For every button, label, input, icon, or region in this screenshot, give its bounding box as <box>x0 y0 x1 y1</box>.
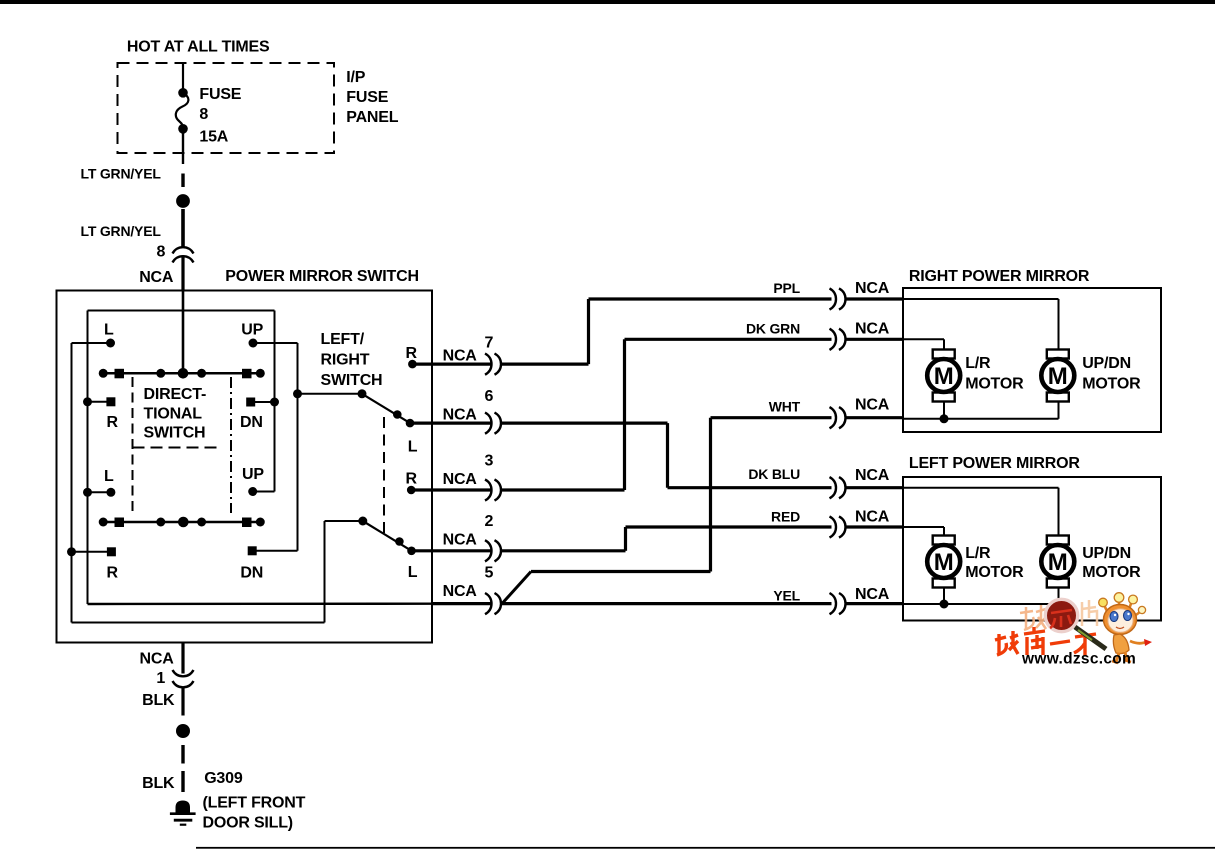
wire WHT common bus right mirror <box>903 400 1059 424</box>
svg-text:UP/DN: UP/DN <box>1082 545 1131 562</box>
svg-text:NCA: NCA <box>443 532 478 549</box>
svg-text:SWITCH: SWITCH <box>144 425 206 442</box>
bottom rule <box>196 847 1215 849</box>
svg-text:HOT AT ALL TIMES: HOT AT ALL TIMES <box>127 39 270 56</box>
wm text weikuyixia <box>995 627 1096 656</box>
right power mirror box <box>903 288 1161 432</box>
directional switch dash-dot box <box>133 377 232 513</box>
wire DK GRN routing (from pin 3) <box>501 339 832 490</box>
contact L lower-left <box>83 488 115 497</box>
svg-text:NCA: NCA <box>855 467 890 484</box>
svg-text:DOOR SILL): DOOR SILL) <box>203 815 293 832</box>
svg-text:RED: RED <box>771 509 800 525</box>
wire YEL common bus left mirror <box>903 586 1059 609</box>
contact R terminal pin 7 <box>408 360 491 369</box>
svg-text:NCA: NCA <box>139 269 174 286</box>
wire from panel top to fuse <box>182 63 184 93</box>
upper contact bus <box>99 368 265 379</box>
contact L upper-left <box>72 339 116 348</box>
label DIRECTIONAL SWITCH <box>144 386 207 442</box>
label L/R MOTOR <box>965 355 1024 393</box>
svg-text:NCA: NCA <box>443 583 478 600</box>
wire fuse to splice (LT GRN/YEL) <box>182 133 184 187</box>
wire BLK dashes to ground <box>181 745 184 792</box>
wire DK GRN to l/r motor <box>903 339 944 351</box>
wire RED to l/r motor <box>903 527 944 537</box>
svg-text:RIGHT POWER MIRROR: RIGHT POWER MIRROR <box>909 268 1090 285</box>
wire PPL routing <box>501 299 832 364</box>
wire DK BLU to up/dn motor <box>903 488 1059 537</box>
motor M4 UP/DN (left mirror) <box>1041 536 1074 588</box>
svg-text:LT GRN/YEL: LT GRN/YEL <box>81 166 162 182</box>
splice S1 <box>176 194 190 208</box>
svg-text:2: 2 <box>485 513 494 530</box>
label UP/DN MOTOR <box>1082 355 1141 393</box>
wire WHT routing (branch from pin 5) <box>502 418 832 604</box>
wm mascot <box>1099 593 1152 663</box>
svg-text:M: M <box>934 363 954 390</box>
svg-text:LT GRN/YEL: LT GRN/YEL <box>81 223 162 239</box>
wire BLK to splice <box>181 688 184 716</box>
svg-text:L: L <box>104 468 114 485</box>
connector NCA 1 <box>173 670 194 687</box>
svg-text:NCA: NCA <box>855 397 890 414</box>
svg-text:6: 6 <box>485 388 494 405</box>
svg-text:SWITCH: SWITCH <box>321 372 383 389</box>
motor M3 L/R (left mirror) <box>927 536 960 588</box>
left/right switch arm 2 <box>358 517 416 556</box>
svg-text:UP/DN: UP/DN <box>1082 355 1131 372</box>
label LEFT/ RIGHT SWITCH <box>321 331 383 389</box>
svg-text:M: M <box>1048 363 1068 390</box>
svg-text:DN: DN <box>240 565 263 582</box>
svg-text:15A: 15A <box>199 129 228 146</box>
mechanical link dashed <box>383 417 385 535</box>
svg-text:MOTOR: MOTOR <box>1082 376 1141 393</box>
wire arm1 L to pin 6 <box>410 422 491 425</box>
label FUSE 8 15A <box>199 86 241 146</box>
wire UP-upper/DN-lower to arm 1 pivot <box>293 343 362 551</box>
svg-text:POWER MIRROR SWITCH: POWER MIRROR SWITCH <box>225 268 419 285</box>
svg-text:5: 5 <box>485 565 494 582</box>
left/right switch arm 1 <box>358 389 415 427</box>
label L/R MOTOR <box>965 545 1024 581</box>
wire RED routing (from pin 2) <box>501 527 832 551</box>
svg-text:L: L <box>408 564 418 581</box>
power mirror switch box <box>57 291 433 643</box>
svg-text:8: 8 <box>157 244 166 261</box>
labels NCA pins left column <box>443 348 478 601</box>
svg-text:LEFT POWER MIRROR: LEFT POWER MIRROR <box>909 455 1080 472</box>
connector NCA (RED) <box>830 516 904 537</box>
svg-text:WHT: WHT <box>769 399 801 415</box>
svg-text:FUSE: FUSE <box>199 86 241 103</box>
svg-text:www.dzsc.com: www.dzsc.com <box>1021 651 1136 668</box>
fuse F8 15A <box>176 88 189 134</box>
connector NCA (WHT) <box>830 407 904 428</box>
svg-text:NCA: NCA <box>443 407 478 424</box>
wm char pian <box>1082 600 1097 626</box>
svg-text:3: 3 <box>485 453 494 470</box>
common return wire (top jumper + side drops to NCA5) <box>88 311 275 605</box>
svg-text:PANEL: PANEL <box>346 109 398 126</box>
label UP/DN MOTOR <box>1082 545 1141 581</box>
connector NCA 3 <box>485 479 501 500</box>
svg-text:1: 1 <box>156 670 165 687</box>
wire PPL to up/dn motor <box>903 299 1059 351</box>
svg-text:G309: G309 <box>204 770 243 787</box>
svg-text:R: R <box>406 345 418 362</box>
lower contact bus <box>99 517 265 528</box>
svg-text:M: M <box>934 549 954 576</box>
contact R terminal pin 3 <box>407 486 491 495</box>
wm char zhao <box>1020 605 1046 630</box>
wire DK BLU routing (from pin 6) <box>501 423 832 488</box>
wire YEL routing (from pin 5) <box>501 602 832 605</box>
svg-text:YEL: YEL <box>773 588 800 604</box>
svg-text:UP: UP <box>242 466 264 483</box>
connector NCA (PPL) <box>830 288 904 309</box>
svg-text:DIRECT-: DIRECT- <box>144 386 207 403</box>
contact UP lower-right <box>248 487 274 496</box>
wire ground feed below switch box <box>181 643 184 674</box>
motor M2 UP/DN (right mirror) <box>1041 350 1074 402</box>
svg-text:R: R <box>107 565 119 582</box>
wm magnifier ring <box>1045 599 1077 631</box>
connector NCA 2 <box>485 540 501 561</box>
svg-text:DN: DN <box>240 414 263 431</box>
labels pin numbers 7 6 3 2 5 <box>485 335 494 582</box>
svg-text:8: 8 <box>199 106 208 123</box>
wire connector into switch box <box>181 257 184 290</box>
connector NCA 8 <box>173 247 194 262</box>
contact UP upper-right <box>249 339 298 348</box>
contact DN upper-right <box>246 398 279 407</box>
svg-text:L/R: L/R <box>965 545 991 562</box>
svg-text:L: L <box>408 439 418 456</box>
connector NCA 6 <box>485 413 501 434</box>
wire arm2 L to pin 2 <box>412 549 492 552</box>
svg-text:NCA: NCA <box>443 348 478 365</box>
svg-text:MOTOR: MOTOR <box>965 376 1024 393</box>
svg-text:TIONAL: TIONAL <box>144 406 203 423</box>
svg-text:NCA: NCA <box>855 509 890 526</box>
svg-text:L: L <box>104 322 114 339</box>
svg-text:NCA: NCA <box>855 280 890 297</box>
top black border bar <box>0 0 1215 4</box>
svg-text:L/R: L/R <box>965 355 991 372</box>
wire L-upper/R-lower to left-right switch arm 2 pivot <box>72 343 363 623</box>
label (LEFT FRONT DOOR SILL) <box>203 795 306 832</box>
connector NCA 7 <box>485 354 501 375</box>
ground G309 symbol <box>170 801 196 825</box>
svg-text:NCA: NCA <box>855 321 890 338</box>
I/P fuse panel dashed box <box>118 63 335 153</box>
svg-text:PPL: PPL <box>773 280 800 296</box>
svg-text:BLK: BLK <box>142 775 175 792</box>
svg-text:R: R <box>406 471 418 488</box>
connector NCA (DK BLU) <box>830 477 904 498</box>
wm handle <box>1075 627 1106 649</box>
svg-text:NCA: NCA <box>855 586 890 603</box>
wire common return to pin 5 <box>88 602 492 605</box>
svg-text:FUSE: FUSE <box>346 89 388 106</box>
splice S2 <box>176 724 190 738</box>
svg-text:DK GRN: DK GRN <box>746 321 800 337</box>
watermark logo dzsc <box>995 593 1152 668</box>
svg-text:NCA: NCA <box>443 471 478 488</box>
label I/P FUSE PANEL <box>346 69 398 126</box>
contact R lower-left <box>67 547 116 556</box>
contact R upper-left <box>83 397 115 406</box>
svg-text:MOTOR: MOTOR <box>1082 564 1141 581</box>
connector NCA (DK GRN) <box>830 329 904 350</box>
svg-text:MOTOR: MOTOR <box>965 564 1024 581</box>
svg-text:RIGHT: RIGHT <box>321 352 370 369</box>
svg-text:BLK: BLK <box>142 692 175 709</box>
connector NCA (YEL) <box>830 593 904 614</box>
svg-text:I/P: I/P <box>346 69 365 86</box>
left power mirror box <box>903 477 1161 621</box>
wire splice to connector NCA 8 <box>181 209 185 247</box>
wm char xin <box>1050 610 1072 628</box>
svg-text:M: M <box>1048 549 1068 576</box>
svg-text:R: R <box>107 414 119 431</box>
svg-text:7: 7 <box>485 335 494 352</box>
svg-text:DK BLU: DK BLU <box>748 466 800 482</box>
svg-text:(LEFT FRONT: (LEFT FRONT <box>203 795 306 812</box>
connector NCA 5 <box>485 593 501 614</box>
svg-text:NCA: NCA <box>140 651 175 668</box>
wire feed to upper contact bus <box>182 290 185 373</box>
svg-text:UP: UP <box>241 322 263 339</box>
motor M1 L/R (right mirror) <box>927 350 960 402</box>
contact DN lower-right <box>248 546 298 555</box>
svg-text:LEFT/: LEFT/ <box>321 331 365 348</box>
